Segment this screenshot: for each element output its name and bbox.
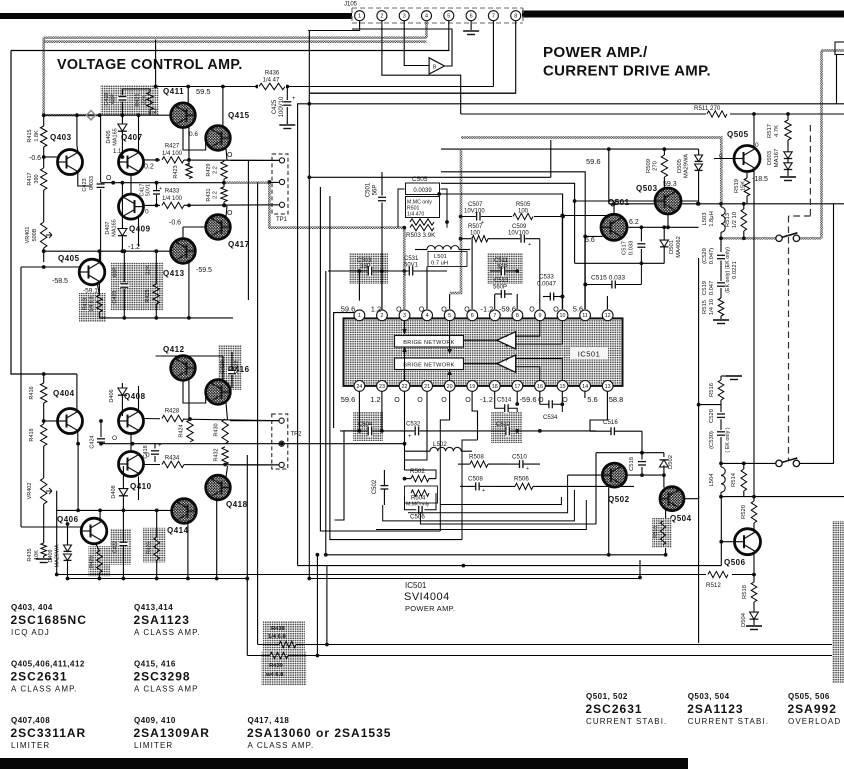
transistor Q409 (119, 194, 144, 219)
wire nest 2 (405, 451, 428, 460)
bus emitter row (68, 578, 248, 580)
wire pin12 up (606, 296, 608, 309)
svg-text:0.0047: 0.0047 (537, 281, 556, 288)
resistor R432 (222, 447, 228, 465)
node dot (186, 85, 190, 89)
capacitor C510 (519, 459, 524, 469)
svg-text:100: 100 (470, 231, 481, 237)
svg-text:R438: R438 (271, 626, 286, 632)
op-amp A (497, 332, 516, 349)
svg-text:Q505, 506: Q505, 506 (788, 692, 830, 701)
svg-text:4: 4 (425, 14, 428, 20)
node dot (358, 269, 362, 273)
svg-text:2: 2 (380, 14, 383, 20)
connector J105 pin 7 (488, 11, 498, 21)
resistor R423 (186, 164, 192, 179)
resistor R434 (160, 459, 184, 470)
transistor Q502 (602, 463, 626, 487)
wire nested corner d (376, 500, 586, 530)
wire opamp A in1 (516, 321, 540, 336)
svg-text:-58.5: -58.5 (52, 278, 68, 285)
connector J105 pin 4 (422, 11, 432, 21)
wire pin2 up (381, 271, 383, 309)
svg-text:-: - (506, 367, 508, 373)
svg-text:J105: J105 (344, 2, 358, 8)
node dot (75, 113, 79, 117)
svg-text:1/4 6.8: 1/4 6.8 (89, 296, 95, 312)
wire opamp B in1 (516, 359, 563, 381)
svg-text:1.1: 1.1 (113, 149, 122, 155)
wire Q412 emitter stub (188, 378, 190, 420)
inductor L504 (721, 467, 725, 492)
resistor R416 (43, 374, 45, 383)
resistor R519 link (747, 172, 754, 179)
buffer amp B (429, 58, 444, 74)
node dot (515, 429, 519, 433)
halftone patch C511 (487, 253, 523, 284)
transistor Q413 (171, 239, 196, 264)
wire bundle x257 (257, 182, 259, 645)
svg-text:2SC2631: 2SC2631 (11, 670, 68, 684)
resistor R504 (411, 490, 429, 496)
wire pin3 up braid (403, 228, 406, 309)
svg-text:C425: C425 (272, 99, 278, 114)
node dot (42, 113, 46, 117)
resistor R509 (663, 149, 665, 155)
diamond junction (87, 111, 96, 120)
wire x21 link (20, 267, 22, 527)
potentiometer VR401 (41, 222, 47, 248)
svg-text:D504: D504 (741, 612, 747, 627)
svg-text:13: 13 (605, 384, 611, 390)
svg-text:1/4 470: 1/4 470 (407, 212, 424, 218)
svg-text:0.033: 0.033 (89, 176, 95, 190)
svg-text:R421: R421 (135, 93, 141, 106)
capacitor C511 (501, 266, 506, 277)
transistor Q403 (58, 150, 83, 175)
BRIGE NETWORK box 1 (395, 336, 464, 348)
svg-text:390: 390 (34, 174, 40, 183)
svg-text:6.2: 6.2 (629, 219, 639, 226)
wire rail 475.1 (627, 474, 664, 476)
IC pin 9 (535, 310, 546, 321)
node dot (719, 495, 723, 499)
svg-text:0: 0 (755, 142, 759, 149)
svg-text:POWER AMP./: POWER AMP./ (543, 44, 648, 61)
svg-text:Q415, 416: Q415, 416 (134, 660, 176, 669)
wire from J105 pin7 (492, 21, 494, 87)
TP2 pin a (279, 418, 284, 423)
svg-text:16: 16 (537, 384, 543, 390)
resistor R505 (512, 211, 534, 222)
capacitor C504 (367, 425, 372, 436)
svg-text:Q410: Q410 (130, 482, 152, 491)
wire pin11 up (584, 236, 586, 309)
halftone patch R419 (79, 293, 106, 322)
node dot (42, 155, 46, 159)
svg-text:MA29WA: MA29WA (684, 154, 690, 178)
capacitor C509 (514, 238, 540, 240)
svg-text:Q407,408: Q407,408 (11, 716, 50, 725)
IC pin 16 (535, 381, 546, 392)
capacitor C518 (641, 453, 643, 460)
wire switch2 feed (721, 462, 776, 464)
wire Q503 base (575, 200, 655, 202)
svg-text:IC501: IC501 (405, 581, 427, 590)
svg-text:O: O (441, 397, 447, 404)
wire from J105 pin8 (309, 21, 515, 94)
svg-text:C507: C507 (468, 202, 483, 208)
svg-text:C508: C508 (468, 476, 483, 483)
resistor R514 (743, 463, 745, 469)
svg-text:2.2: 2.2 (213, 191, 219, 199)
svg-text:C510: C510 (512, 454, 527, 461)
wire pin1 up (328, 271, 359, 301)
svg-text:LIMITER: LIMITER (11, 741, 50, 750)
wire Q506 emitter (753, 554, 755, 575)
svg-text:12: 12 (605, 313, 611, 319)
IC pin 10 (557, 310, 568, 321)
svg-text:-59.1: -59.1 (83, 288, 98, 295)
svg-text:0.0039: 0.0039 (413, 188, 432, 194)
connector J105 pin 8 (511, 11, 521, 21)
svg-text:Q409: Q409 (129, 225, 151, 234)
wire long 554.8 (326, 554, 665, 556)
wire rail -1.2 (44, 250, 171, 252)
svg-text:A CLASS AMP.: A CLASS AMP. (134, 628, 201, 637)
wire Q418 collector stub (226, 466, 228, 478)
IC pin 21 (422, 381, 433, 392)
svg-text:LIMITER: LIMITER (134, 741, 173, 750)
node dot (719, 462, 723, 466)
wire pin13 down (590, 392, 607, 432)
wire rail y93 (309, 92, 515, 94)
transistor Q414 (172, 499, 197, 524)
dashed EK line top (789, 125, 811, 461)
halftone patch R426 (143, 528, 166, 563)
svg-text:33P: 33P (360, 264, 371, 270)
svg-text:2SC3311AR: 2SC3311AR (11, 726, 87, 740)
node dot (187, 158, 191, 162)
wire pa rail 203.8 (610, 203, 844, 205)
svg-text:O: O (538, 397, 544, 404)
svg-text:SVI4004: SVI4004 (404, 591, 450, 603)
ground R516 top (721, 375, 728, 377)
svg-text:C531: C531 (404, 256, 419, 262)
resistor R519 zig (744, 178, 750, 196)
wire box1 to opampA (464, 339, 497, 341)
resistor R425 (155, 251, 157, 284)
svg-text:0.047): 0.047) (709, 248, 715, 265)
svg-text:Q403: Q403 (50, 133, 72, 142)
svg-text:2.2: 2.2 (213, 166, 219, 174)
svg-text:R428: R428 (165, 409, 180, 415)
svg-text:R510: R510 (653, 526, 659, 538)
IC pin 15 (557, 381, 568, 392)
svg-text:58.8: 58.8 (609, 395, 624, 404)
svg-text:-59.6: -59.6 (499, 305, 516, 314)
svg-text:OVERLOAD D: OVERLOAD D (788, 717, 844, 726)
svg-text:Q409, 410: Q409, 410 (134, 716, 176, 725)
svg-text:C423: C423 (82, 178, 88, 191)
svg-text:59.3: 59.3 (663, 181, 677, 188)
R501 box (406, 197, 440, 218)
svg-text:22K: 22K (145, 265, 151, 275)
wire nest r502 loop (405, 470, 437, 479)
svg-text:R422: R422 (234, 360, 240, 373)
svg-text:+: + (526, 466, 529, 472)
svg-text:R434: R434 (165, 456, 180, 462)
svg-text:8: 8 (516, 313, 519, 319)
bus junction dot (215, 577, 219, 581)
node dot (445, 220, 449, 224)
diode D408 (122, 466, 124, 489)
wire Q404 emitter (77, 432, 79, 444)
svg-text:2SA992: 2SA992 (788, 702, 837, 716)
svg-text:C512: C512 (496, 422, 511, 428)
node dot (98, 113, 102, 117)
svg-text:VR401: VR401 (25, 227, 31, 244)
transistor Q505 (734, 146, 760, 172)
svg-text:Q405: Q405 (58, 254, 80, 263)
svg-text:R439: R439 (269, 663, 284, 669)
resistor R417 (43, 157, 45, 168)
wire Q408 collector stub (138, 386, 140, 410)
capacitor C530 (716, 431, 726, 436)
connector J105 pin 6 (466, 11, 476, 21)
svg-text:C517: C517 (622, 241, 628, 255)
svg-text:L503: L503 (702, 213, 708, 226)
node dot (403, 442, 407, 446)
svg-text:(C529: (C529 (702, 248, 708, 264)
wire Q501 top (608, 149, 610, 204)
svg-text:O: O (112, 435, 117, 442)
wire Q407 collector stub (138, 115, 140, 151)
resistor R415 (43, 115, 45, 126)
svg-text:5.6: 5.6 (587, 395, 597, 404)
wire rail 496.6 (721, 496, 844, 498)
diode D409 (67, 524, 69, 545)
svg-text:R420: R420 (89, 556, 95, 568)
bus junction dot (186, 577, 190, 581)
svg-text:59.6: 59.6 (586, 157, 601, 166)
svg-text:Q404: Q404 (53, 389, 75, 398)
capacitor C502 (379, 485, 389, 490)
wire from J105 pin1 (308, 21, 359, 31)
halftone patch R420 (89, 546, 111, 576)
halftone patch C420/R422 (218, 345, 242, 390)
wire from J105 pin5 (448, 21, 450, 51)
capacitor C513 (501, 289, 506, 299)
wire Q416 emitter stub (226, 401, 228, 420)
braid bus from J105 pin4 (425, 21, 428, 38)
resistor R420p (97, 551, 103, 573)
resistor R439 (270, 652, 288, 658)
svg-text:R502: R502 (410, 468, 425, 475)
wire switch2 out (800, 204, 834, 464)
svg-text:Q504: Q504 (670, 514, 692, 523)
halftone patch C504 (353, 412, 383, 441)
svg-text:Q403, 404: Q403, 404 (11, 603, 53, 612)
svg-text:R419: R419 (83, 298, 89, 310)
wire Q417 collector stub (226, 206, 227, 218)
node dot (666, 202, 670, 206)
TP1 pin a (279, 158, 284, 163)
wire row 419 (144, 419, 283, 421)
svg-text:5.6: 5.6 (573, 305, 583, 314)
svg-text:C421: C421 (112, 290, 118, 303)
resistor R424 (187, 420, 193, 442)
svg-text:R423: R423 (173, 165, 179, 178)
wire pin16 down (539, 392, 541, 405)
wire right border (698, 496, 700, 643)
svg-text:D409: D409 (48, 549, 54, 562)
svg-text:Q502: Q502 (608, 495, 630, 504)
svg-text:TP2: TP2 (291, 432, 303, 438)
IC pin 18 (489, 381, 500, 392)
node dot (402, 226, 406, 230)
halftone patch C419/R421 (101, 86, 159, 116)
wire Q417-Q413 link (183, 226, 206, 228)
wire Q502 base (568, 474, 603, 476)
svg-text:MA167: MA167 (774, 149, 780, 167)
bus junction dot (66, 577, 70, 581)
capacitor C423 (100, 115, 102, 182)
svg-text:10V100: 10V100 (464, 209, 485, 215)
L501 box (428, 252, 467, 267)
svg-text:VR402: VR402 (27, 483, 33, 500)
svg-text:Q417, 418: Q417, 418 (248, 716, 290, 725)
svg-text:CURRENT STABI.: CURRENT STABI. (688, 717, 769, 726)
wire pa top rail R511 (461, 113, 844, 115)
svg-text:C419: C419 (104, 92, 110, 105)
svg-text:C504: C504 (358, 422, 373, 428)
svg-text:18: 18 (492, 384, 498, 390)
svg-text:1: 1 (358, 313, 361, 319)
resistor R430 (222, 419, 228, 444)
svg-text:O: O (441, 307, 447, 314)
svg-text:R514: R514 (731, 472, 737, 487)
transistor Q416 (206, 380, 231, 405)
svg-text:+: + (505, 358, 509, 364)
resistor R426p (156, 510, 158, 537)
svg-text:R416: R416 (29, 386, 35, 399)
transistor Q501 (601, 214, 627, 240)
svg-text:O: O (227, 152, 233, 159)
halftone patch R510 (652, 518, 672, 548)
svg-text:IC501: IC501 (578, 350, 601, 359)
test point TP1 box (272, 154, 288, 214)
svg-text:Q506: Q506 (724, 558, 746, 567)
capacitor C422p (118, 541, 128, 546)
svg-text:R436: R436 (265, 71, 280, 77)
svg-text:1/4 100: 1/4 100 (162, 151, 183, 157)
svg-text:8: 8 (514, 14, 517, 20)
svg-text:+: + (408, 434, 412, 440)
node dot (719, 202, 723, 206)
svg-text:14: 14 (582, 384, 588, 390)
svg-text:2SA1309AR: 2SA1309AR (134, 726, 210, 740)
wire long vertical x308 (308, 31, 310, 579)
svg-text:(C530): (C530) (709, 431, 715, 449)
wire pin24 down (358, 392, 360, 431)
svg-text:Q413: Q413 (163, 269, 185, 278)
capacitor C425 (279, 87, 295, 129)
transistor Q405 (79, 259, 105, 285)
node dot (515, 269, 519, 273)
wire Q404 emitter col (77, 444, 79, 511)
wire Q405 collector (98, 251, 100, 261)
svg-text:10K: 10K (34, 550, 40, 560)
resistor R502 (411, 475, 429, 481)
wire row 160 (144, 159, 283, 162)
svg-text:R431: R431 (206, 188, 212, 201)
capacitor C519 (716, 282, 726, 287)
svg-text:0.2: 0.2 (144, 164, 154, 171)
resistor R431 (221, 187, 227, 202)
capacitor C533 (550, 292, 555, 302)
svg-text:50V1: 50V1 (404, 263, 419, 269)
svg-text:50V1: 50V1 (146, 184, 152, 196)
IC pin 20 (444, 381, 455, 392)
capacitor C534 (548, 399, 553, 409)
resistor R501 zig (410, 219, 434, 225)
IC pin 11 (580, 310, 591, 321)
TP1 pin c (279, 202, 284, 207)
wire from J105 pin2 (382, 21, 461, 114)
wire Q505 base (714, 158, 734, 160)
svg-text:R430: R430 (214, 423, 220, 436)
connector J105 pin 1 (355, 11, 365, 21)
svg-text:1/4 6.8: 1/4 6.8 (268, 634, 287, 640)
svg-text:-: - (506, 335, 508, 341)
wire Q404 base (44, 420, 58, 422)
svg-text:56P: 56P (373, 185, 379, 196)
node dot (752, 495, 756, 499)
svg-text:O: O (417, 397, 423, 404)
svg-text:33P: 33P (497, 265, 508, 271)
svg-text:R519: R519 (734, 179, 740, 193)
svg-text:D408: D408 (111, 485, 117, 498)
svg-text:+: + (159, 186, 162, 192)
svg-text:D505: D505 (677, 159, 683, 173)
capacitor C503 (368, 266, 373, 277)
wire Q415 collector (222, 87, 224, 127)
wire TP1 a (230, 159, 279, 161)
connector J105 pin 3 (399, 11, 409, 21)
transistor Q504 (660, 487, 684, 511)
wire pin22 down (404, 392, 406, 445)
IC pin 12 (602, 310, 613, 321)
capacitor C501 (381, 172, 383, 196)
svg-text:0: 0 (146, 452, 150, 459)
wire rail 149.1 (441, 148, 699, 150)
wire right x698 lower (698, 258, 700, 496)
wire Q411 collector (187, 87, 189, 104)
label IC501 box (570, 348, 608, 360)
svg-text:D501: D501 (669, 240, 675, 254)
resistor R513 (743, 204, 745, 209)
svg-text:R513: R513 (725, 213, 731, 227)
capacitor C418 (154, 443, 156, 449)
resistor R419 (98, 284, 100, 295)
svg-text:0.0221: 0.0221 (732, 261, 738, 279)
svg-text:VOLTAGE CONTROL AMP.: VOLTAGE CONTROL AMP. (57, 57, 243, 73)
wire row 466 (144, 464, 283, 466)
svg-text:C514: C514 (497, 398, 512, 404)
svg-text:-59.6: -59.6 (519, 395, 536, 404)
wire Q406 collector stub (99, 510, 101, 521)
